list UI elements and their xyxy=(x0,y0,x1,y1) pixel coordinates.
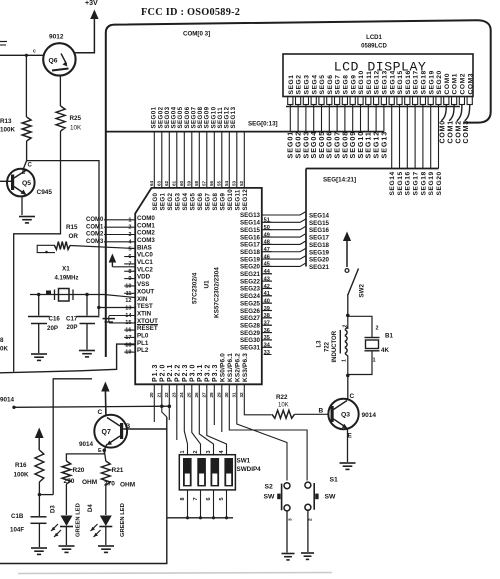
resistor R22 labels xyxy=(276,394,289,409)
svg-text:OR: OR xyxy=(69,233,79,240)
svg-text:P3.3: P3.3 xyxy=(212,364,219,382)
resistor R25 labels xyxy=(70,115,83,132)
inductor L3 pin 2 label xyxy=(343,325,349,328)
svg-text:SEG8: SEG8 xyxy=(343,74,350,94)
transistor Q6 xyxy=(43,43,75,75)
svg-text:R15: R15 xyxy=(66,224,78,231)
svg-text:KS2/P6.2: KS2/P6.2 xyxy=(234,353,241,382)
svg-text:SEG18: SEG18 xyxy=(240,249,261,256)
svg-text:OHM: OHM xyxy=(82,479,97,486)
svg-text:SEG29: SEG29 xyxy=(240,330,261,337)
svg-text:C945: C945 xyxy=(37,189,53,196)
svg-text:SEG2: SEG2 xyxy=(296,74,303,94)
svg-text:COM3: COM3 xyxy=(137,237,155,244)
svg-text:GREEN LED: GREEN LED xyxy=(120,503,126,537)
svg-text:SEG16: SEG16 xyxy=(405,171,412,195)
ground below Q5 xyxy=(19,217,35,223)
op-amp U1 microcontroller body KS57C2302 xyxy=(135,188,262,384)
svg-text:XTIN: XTIN xyxy=(137,310,152,317)
wire Q7 emitter node xyxy=(103,444,108,452)
svg-text:D3: D3 xyxy=(51,505,57,513)
switch SW2 contact xyxy=(345,269,349,273)
resistor R13 labels xyxy=(0,118,16,134)
svg-text:SEG5: SEG5 xyxy=(189,193,196,211)
svg-text:PL0: PL0 xyxy=(137,333,149,340)
svg-text:RESET: RESET xyxy=(137,325,158,332)
svg-text:52: 52 xyxy=(239,180,244,186)
svg-text:SEG11: SEG11 xyxy=(234,189,241,210)
resistor R13 xyxy=(22,117,31,141)
svg-text:54: 54 xyxy=(224,180,229,186)
resistor R21 xyxy=(101,461,110,485)
resistor R21 labels xyxy=(104,467,135,489)
wire branch down to R16 node xyxy=(53,379,92,495)
wire junction dot to R13 xyxy=(25,55,27,117)
svg-text:SEG28: SEG28 xyxy=(240,322,261,329)
wire U1 pin23 xyxy=(176,384,178,440)
svg-text:P3.0: P3.0 xyxy=(189,364,196,382)
node crystal right xyxy=(85,293,88,296)
power arrow to U1 VDD pin xyxy=(109,254,136,267)
svg-text:R21: R21 xyxy=(112,467,124,474)
svg-text:KS0/P6.0: KS0/P6.0 xyxy=(219,353,226,382)
bus label SEG[14:21] xyxy=(323,177,356,184)
svg-text:SEG15: SEG15 xyxy=(240,227,261,234)
svg-text:SEG14: SEG14 xyxy=(309,213,330,220)
svg-text:c: c xyxy=(33,49,36,55)
svg-text:10K: 10K xyxy=(278,403,289,409)
svg-text:9012: 9012 xyxy=(49,34,64,41)
svg-text:SEG19: SEG19 xyxy=(309,249,330,256)
svg-text:COM3: COM3 xyxy=(86,239,104,245)
capacitor C18 xyxy=(31,517,47,524)
node crystal left xyxy=(37,293,40,296)
capacitor C17 xyxy=(77,317,99,324)
node junction on Q6 base wire xyxy=(25,54,28,57)
wire node to C16 xyxy=(38,295,40,316)
crystal X1 labels xyxy=(55,266,79,282)
svg-text:SEG12: SEG12 xyxy=(242,189,249,211)
node XTIN junction xyxy=(97,306,135,309)
svg-text:100K: 100K xyxy=(14,472,30,479)
svg-text:C1B: C1B xyxy=(11,513,24,520)
svg-text:30: 30 xyxy=(224,392,229,398)
svg-text:61: 61 xyxy=(172,180,177,186)
switch S1 xyxy=(305,482,319,510)
resistor R16 labels xyxy=(14,462,30,479)
switch S1 pin label xyxy=(308,518,314,521)
wires LCD SEG1-SEG13 to bus xyxy=(290,105,384,132)
svg-text:2: 2 xyxy=(193,450,199,453)
svg-text:SEG15: SEG15 xyxy=(397,70,404,94)
svg-text:SEG20: SEG20 xyxy=(436,171,443,195)
power arrow above R16 xyxy=(35,428,44,451)
DIP switch bottom pins and wires xyxy=(180,490,228,520)
buzzer B1 xyxy=(365,338,380,351)
svg-text:SEG17: SEG17 xyxy=(309,235,330,242)
svg-text:COM2: COM2 xyxy=(455,120,462,143)
switch SW2 label xyxy=(359,284,366,298)
wire U1 pin20 xyxy=(153,384,155,422)
node below R16 xyxy=(38,493,54,496)
svg-text:E: E xyxy=(348,433,353,440)
svg-text:OHM: OHM xyxy=(120,482,135,489)
svg-text:SEG30: SEG30 xyxy=(240,337,261,344)
svg-text:B: B xyxy=(319,408,324,415)
switch SW2 blade xyxy=(348,269,359,296)
U1 right pin labels SEG13-SEG31 xyxy=(240,212,261,351)
wire Q3 emitter to ground xyxy=(347,429,349,463)
svg-text:SW2: SW2 xyxy=(359,284,366,298)
wire PL2 route to left edge xyxy=(0,344,135,373)
U1 top pin labels SEG0-SEG12 xyxy=(152,189,249,211)
svg-text:SEG20: SEG20 xyxy=(240,264,261,271)
svg-text:PL1: PL1 xyxy=(137,340,149,347)
capacitor C18 labels xyxy=(10,513,24,534)
LED D4 label GREEN LED xyxy=(120,503,126,537)
svg-text:5: 5 xyxy=(128,247,131,253)
svg-text:P3.2: P3.2 xyxy=(204,364,211,382)
net labels SEG14-SEG21 right of bus xyxy=(309,213,330,271)
svg-text:SEG14: SEG14 xyxy=(240,220,261,227)
svg-text:27: 27 xyxy=(202,392,207,398)
U1 left pin numbers 1-19 xyxy=(125,217,132,355)
wire U1 pin30 to switch S1 xyxy=(229,384,307,480)
svg-text:SEG3: SEG3 xyxy=(304,74,311,94)
buzzer B1 labels xyxy=(381,333,393,355)
svg-text:LCD1: LCD1 xyxy=(366,35,382,41)
ground below S1 xyxy=(301,553,314,559)
wires bus SEG[0:13] to U1 top pins xyxy=(154,132,244,188)
wire U1 pin29 xyxy=(221,384,223,432)
net label COM[0 3] xyxy=(183,31,210,38)
LED D4 xyxy=(91,516,113,538)
svg-text:C: C xyxy=(98,409,103,416)
svg-text:9014: 9014 xyxy=(0,397,15,404)
resistor R25 xyxy=(56,106,65,131)
wire R20 to LED D3 xyxy=(65,484,67,515)
ground below C18 xyxy=(31,548,47,554)
net labels COM0-COM3 below LCD xyxy=(440,120,470,143)
svg-text:9014: 9014 xyxy=(362,412,377,419)
wire C17 to ground xyxy=(86,324,88,350)
wire C18 to ground xyxy=(38,523,40,547)
wire L3 to node xyxy=(347,356,349,376)
svg-text:0K: 0K xyxy=(0,346,8,353)
svg-text:SEG20: SEG20 xyxy=(309,257,330,264)
svg-text:1: 1 xyxy=(373,358,376,364)
svg-text:P2.3: P2.3 xyxy=(182,364,189,382)
svg-text:COM1: COM1 xyxy=(137,222,155,229)
svg-text:SEG17: SEG17 xyxy=(413,70,420,94)
svg-text:24: 24 xyxy=(179,392,184,398)
svg-text:13: 13 xyxy=(125,306,131,312)
U1 left pin labels xyxy=(137,215,158,354)
wire Q6 collector down to R25 xyxy=(59,75,61,107)
DIP switch SW1 sliders xyxy=(183,458,233,486)
svg-text:SEG6: SEG6 xyxy=(327,74,334,94)
wires U1 COM0-COM3 with net labels xyxy=(86,217,135,245)
svg-text:R25: R25 xyxy=(70,115,82,122)
DIP switch top pin numbers 1-4 xyxy=(180,450,225,454)
svg-text:VLC2: VLC2 xyxy=(137,266,153,273)
svg-text:SEG19: SEG19 xyxy=(428,70,435,94)
wire D3 to ground xyxy=(65,527,67,546)
svg-text:C17: C17 xyxy=(66,316,78,323)
svg-text:C: C xyxy=(28,163,33,169)
svg-text:25: 25 xyxy=(187,392,192,398)
svg-text:SEG10: SEG10 xyxy=(358,70,365,94)
LCD display body xyxy=(283,54,473,97)
wire node to C18 xyxy=(38,495,40,516)
svg-text:SEG18: SEG18 xyxy=(420,171,427,195)
svg-text:P2.1: P2.1 xyxy=(167,364,174,382)
svg-text:VDD: VDD xyxy=(137,274,151,281)
wires U1 SEG13-SEG20 to right bus xyxy=(262,212,306,267)
svg-text:SEG9: SEG9 xyxy=(350,74,357,94)
resistor R22 xyxy=(272,410,329,418)
svg-text:22: 22 xyxy=(164,392,169,398)
wire emitter branch to R20 xyxy=(66,450,104,461)
svg-text:56: 56 xyxy=(209,180,214,186)
svg-text:58: 58 xyxy=(194,180,199,186)
wire C16 to ground xyxy=(38,324,40,354)
svg-text:Q5: Q5 xyxy=(22,180,31,187)
svg-text:SEG26: SEG26 xyxy=(240,308,261,315)
svg-text:XIN: XIN xyxy=(137,296,148,303)
wire Q5 emitter down xyxy=(21,196,23,215)
svg-text:7: 7 xyxy=(193,497,199,500)
transistor Q7 terminal C xyxy=(98,409,103,416)
resistor R20 xyxy=(62,461,71,484)
svg-text:U1: U1 xyxy=(204,280,211,289)
svg-text:SEG17: SEG17 xyxy=(240,242,261,249)
svg-text:20P: 20P xyxy=(47,325,58,332)
wires LCD SEG14-SEG20 to right bus xyxy=(392,105,439,169)
svg-text:2: 2 xyxy=(376,326,379,332)
resistor R15 labels xyxy=(66,224,78,240)
wire U1 pin22 xyxy=(168,384,170,420)
svg-text:SEG19: SEG19 xyxy=(240,256,261,263)
svg-text:R22: R22 xyxy=(276,394,288,401)
resistor R20 labels xyxy=(64,467,98,486)
svg-text:SEG20: SEG20 xyxy=(436,70,443,94)
wire R21 to LED D4 xyxy=(105,485,107,515)
svg-text:60: 60 xyxy=(179,180,184,186)
svg-text:SEG3: SEG3 xyxy=(174,193,181,211)
wire Q5 collector to junction xyxy=(23,161,26,170)
switch S2 labels xyxy=(264,484,276,501)
left edge tick marks xyxy=(0,42,7,46)
svg-text:SEG[14:21]: SEG[14:21] xyxy=(323,177,356,184)
svg-text:29: 29 xyxy=(217,392,222,398)
LCD module label LCD1 xyxy=(366,35,382,41)
wire S1 to ground xyxy=(307,510,309,552)
svg-text:S2: S2 xyxy=(265,484,274,491)
svg-text:3: 3 xyxy=(288,518,294,521)
svg-text:COM3: COM3 xyxy=(463,120,470,143)
net labels SEG01-SEG13 below bus xyxy=(286,131,389,159)
svg-text:SWDIP4: SWDIP4 xyxy=(237,466,262,473)
transistor Q3 label 9014 xyxy=(348,412,377,440)
svg-text:R13: R13 xyxy=(0,118,12,125)
svg-text:21: 21 xyxy=(157,392,162,398)
svg-text:TEST: TEST xyxy=(137,303,153,310)
svg-text:SEG16: SEG16 xyxy=(405,70,412,94)
svg-text:INDUCTOR: INDUCTOR xyxy=(332,330,338,362)
svg-text:SEG24: SEG24 xyxy=(240,293,261,300)
wire U1 pin21 to LED box runner xyxy=(162,384,167,417)
switch S1 labels xyxy=(325,477,339,501)
wire emitter to R21 xyxy=(104,450,106,461)
svg-text:SEG[0:13]: SEG[0:13] xyxy=(248,121,278,128)
transistor Q3 base label xyxy=(319,408,324,415)
capacitor reset xyxy=(99,308,115,323)
svg-text:KS1/P6.1: KS1/P6.1 xyxy=(227,353,234,382)
svg-text:SEG18: SEG18 xyxy=(309,242,330,249)
bus SEG[14:21] vertical xyxy=(305,169,307,267)
svg-text:Q7: Q7 xyxy=(102,429,111,436)
svg-text:SEG14: SEG14 xyxy=(389,171,396,195)
svg-text:SEG15: SEG15 xyxy=(309,220,330,227)
svg-text:SEG23: SEG23 xyxy=(240,286,261,293)
U1 internal refdes U1 xyxy=(204,280,211,289)
LCD display title text xyxy=(334,60,427,75)
node below L3 xyxy=(346,374,350,378)
svg-text:COM2: COM2 xyxy=(86,232,104,238)
U1 internal part number 57C2302/4 xyxy=(192,272,199,304)
svg-text:KS57C2302/2304: KS57C2302/2304 xyxy=(214,267,221,318)
svg-text:COM[0 3]: COM[0 3] xyxy=(183,31,210,38)
svg-text:12: 12 xyxy=(125,298,131,304)
svg-text:SEG21: SEG21 xyxy=(309,264,330,271)
svg-text:+3V: +3V xyxy=(85,0,98,7)
svg-text:COM1: COM1 xyxy=(86,224,104,230)
svg-text:XTOUT: XTOUT xyxy=(137,318,158,325)
wire DIP common bus xyxy=(167,517,233,519)
svg-text:SEG25: SEG25 xyxy=(240,300,261,307)
ground below Q3 xyxy=(340,463,356,469)
svg-text:SEG6: SEG6 xyxy=(197,193,204,211)
svg-text:E: E xyxy=(98,448,102,454)
wire long horizontal to IC P2 pin xyxy=(14,406,169,407)
wire Q7 base to right runner xyxy=(123,428,167,430)
svg-text:0589LCD: 0589LCD xyxy=(361,44,387,50)
U1 right pin numbers 51-33 xyxy=(264,218,272,356)
power +3V label xyxy=(85,0,98,7)
ground below S2 xyxy=(282,554,295,560)
svg-text:SEG22: SEG22 xyxy=(240,278,261,285)
svg-text:SW1: SW1 xyxy=(237,458,251,465)
svg-text:SEG10: SEG10 xyxy=(227,189,234,211)
svg-text:COM3: COM3 xyxy=(467,73,474,95)
svg-text:10K: 10K xyxy=(70,125,82,132)
power arrow above SW2 xyxy=(343,232,351,268)
svg-text:722: 722 xyxy=(325,341,331,352)
node on left wire xyxy=(12,406,15,409)
svg-text:SEG16: SEG16 xyxy=(240,234,261,241)
svg-text:SW: SW xyxy=(264,494,276,501)
LCD connector pin boxes xyxy=(288,97,473,105)
svg-text:SEG8: SEG8 xyxy=(212,193,219,211)
svg-text:BIAS: BIAS xyxy=(137,244,152,251)
svg-text:COM0: COM0 xyxy=(86,217,104,223)
wire D4 to ground xyxy=(105,527,107,546)
svg-text:C16: C16 xyxy=(49,316,61,323)
svg-text:COM0: COM0 xyxy=(137,215,155,222)
wires U1 to DIP switch SW1 xyxy=(184,384,226,455)
wire S2 to ground xyxy=(286,511,288,553)
svg-text:SEG13: SEG13 xyxy=(230,106,237,128)
wire U1 pin31 to switch S2 xyxy=(237,384,287,480)
wire R13 to Q5 collector xyxy=(26,141,28,161)
ground below D4 xyxy=(98,546,114,552)
svg-text:PL2: PL2 xyxy=(137,347,149,354)
svg-text:SEG9: SEG9 xyxy=(219,193,226,211)
svg-text:5: 5 xyxy=(219,497,225,500)
svg-text:R20: R20 xyxy=(73,467,85,474)
svg-text:SEG0: SEG0 xyxy=(152,193,159,211)
svg-text:P1.3: P1.3 xyxy=(152,364,159,382)
LCD pin labels SEG1-SEG20 COM0-COM3 xyxy=(288,70,474,94)
bus label SEG[0:13] xyxy=(248,121,278,128)
svg-text:P2.0: P2.0 xyxy=(159,364,166,382)
inductor L3 xyxy=(340,315,348,356)
net labels SEG14-SEG20 below wires xyxy=(389,171,443,195)
svg-text:3: 3 xyxy=(206,450,212,453)
wires LCD COM0-COM3 xyxy=(441,105,469,121)
svg-text:SEG11: SEG11 xyxy=(366,71,373,95)
resistor R15 xyxy=(55,242,136,250)
transistor Q5 xyxy=(0,169,35,197)
svg-text:FCC ID : OSO0589-2: FCC ID : OSO0589-2 xyxy=(141,7,240,18)
svg-text:53: 53 xyxy=(232,180,237,186)
DIP switch SW1 body xyxy=(179,455,235,490)
U1 XTOUT pin stub xyxy=(109,315,135,317)
svg-text:GREEN LED: GREEN LED xyxy=(76,503,82,537)
svg-text:SEG14: SEG14 xyxy=(389,70,396,94)
node above L3 xyxy=(346,314,350,318)
svg-text:26: 26 xyxy=(194,392,199,398)
svg-text:8: 8 xyxy=(180,497,186,500)
svg-text:1: 1 xyxy=(342,359,348,362)
svg-text:SW: SW xyxy=(325,494,337,501)
svg-text:VLC0: VLC0 xyxy=(137,252,153,259)
svg-text:8: 8 xyxy=(0,337,4,344)
svg-text:64: 64 xyxy=(149,180,154,186)
svg-text:20: 20 xyxy=(149,392,154,398)
ground below C16 xyxy=(31,354,47,360)
svg-text:SEG1: SEG1 xyxy=(159,193,166,211)
svg-text:SEG17: SEG17 xyxy=(413,171,420,195)
capacitor C16 labels xyxy=(47,316,60,333)
wire node to B1 xyxy=(348,316,372,337)
capacitor C16 xyxy=(28,317,50,324)
svg-text:Q3: Q3 xyxy=(341,412,350,419)
svg-text:59: 59 xyxy=(187,180,192,186)
svg-text:COM0: COM0 xyxy=(444,73,451,95)
LCD module label 0589LCD xyxy=(361,44,387,50)
transistor Q7 label 9014 xyxy=(79,423,131,454)
diode D4 label xyxy=(88,504,94,512)
wire R16 to node xyxy=(38,482,40,495)
svg-text:SEG16: SEG16 xyxy=(309,227,330,234)
svg-text:L3: L3 xyxy=(317,340,323,348)
svg-text:SEG4: SEG4 xyxy=(182,193,189,211)
svg-text:SEG21: SEG21 xyxy=(240,271,261,278)
switch S2 pin label xyxy=(288,518,294,521)
svg-text:20P: 20P xyxy=(67,324,78,331)
